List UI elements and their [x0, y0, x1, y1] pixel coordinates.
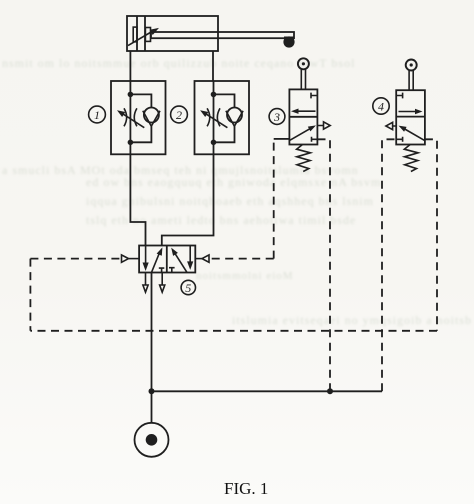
bleed-through text from reverse page [2, 56, 472, 327]
valve 4 bottom diagonal [403, 128, 424, 140]
valve 2 check branch bottom [214, 126, 235, 142]
valve 2 throttle arcs [207, 108, 220, 126]
valve 5 right exhaust [161, 273, 163, 286]
supply dashed to valve 4 [382, 139, 396, 391]
pressure source [135, 423, 169, 457]
port line cylinder-left to valve 1 [129, 51, 131, 81]
valve 4 body [396, 90, 425, 144]
valve 4 spring [404, 145, 418, 172]
rod end ball [283, 36, 294, 47]
valve 3 roller [298, 58, 309, 69]
valve 5 left pilot arrow [129, 258, 140, 260]
valve 3 body [289, 89, 317, 144]
valve 2 check seat [226, 111, 243, 126]
cylinder piston (two lines) [137, 16, 145, 51]
svg-text:2: 2 [176, 108, 182, 122]
valve 1 check circle [144, 108, 159, 123]
svg-text:itslumia evitseqaei no ymqsigo: itslumia evitseqaei no ymqsigoib a noits… [232, 313, 472, 327]
valve 1 through line [129, 81, 131, 154]
flow control valve 2 box [195, 81, 250, 154]
svg-text:4: 4 [378, 100, 384, 114]
valve 3 bottom blocked port [312, 137, 318, 142]
valve 1 top junction [128, 92, 134, 98]
line valve1 to valve5 left top port [130, 154, 145, 245]
valve 5 divider [166, 246, 168, 273]
valve 4 bottom blocked port [396, 137, 402, 142]
valve 1 check branch bottom [130, 126, 151, 142]
valve 1 check seat [143, 111, 160, 126]
pilot dashed: left riser to valve5 left pilot [30, 258, 121, 260]
valve 5 right box blocked port T [169, 268, 175, 273]
label 4 [373, 98, 389, 114]
valve 2 throttle arrow [206, 114, 228, 128]
valve 1 bottom junction [128, 140, 134, 146]
cylinder cushion block left [133, 27, 137, 42]
valve 5 left box blocked port T [159, 268, 165, 272]
valve 1 throttle arcs [124, 108, 137, 126]
svg-text:1: 1 [94, 108, 100, 122]
valve 4 divider [396, 116, 425, 118]
cushion adjust arrow [128, 32, 152, 46]
line valve2 to valve5 right top port [162, 154, 214, 245]
cylinder body [127, 16, 218, 51]
svg-text:3: 3 [273, 110, 280, 124]
piston rod [151, 32, 294, 38]
valve 1 check branch [130, 94, 151, 107]
valve 5 right pilot arrow [195, 258, 202, 260]
valve 3 bottom diagonal [290, 128, 312, 141]
valve 2 through line [213, 81, 215, 154]
valve 4 exhaust triangle left [386, 122, 396, 129]
valve 3 divider [289, 116, 317, 118]
supply dashed to valve 3 [317, 139, 330, 391]
valve 3 exhaust triangle right [317, 122, 330, 129]
pilot dashed: valve3 to valve5 right pilot [209, 258, 274, 260]
pilot dashed: bottom long horizontal [30, 330, 437, 332]
cylinder rod bushing [145, 28, 150, 42]
supply junction dot [149, 388, 155, 394]
valve 5 left box down path [145, 246, 147, 264]
port line cylinder-right to valve 2 [212, 51, 214, 81]
valve 2 check branch [214, 94, 235, 107]
valve 5 right box diagonal up path [175, 253, 187, 272]
valve 5 right box down path [189, 246, 191, 262]
svg-text:tslq eth no ameti ledto bns ae: tslq eth no ameti ledto bns aehotiwa tim… [86, 213, 356, 227]
valve 1 throttle arrow [123, 114, 145, 128]
valve 3 roller stem [301, 69, 305, 89]
label 5 [181, 280, 195, 294]
valve 2 check circle [227, 108, 242, 123]
label 1 [89, 106, 106, 123]
svg-text:5: 5 [185, 281, 191, 295]
label 2 [171, 106, 188, 123]
valve 4 roller [406, 60, 417, 71]
supply line vertical [151, 273, 153, 423]
valve 5 left box diagonal up path [152, 254, 160, 273]
valve 5 body [139, 246, 195, 273]
valve 3 left port stub [274, 138, 290, 140]
label 3 [269, 109, 285, 125]
supply tap dot for valve 3 [327, 388, 333, 394]
svg-text:FIG. 1: FIG. 1 [224, 479, 268, 498]
pilot dashed: valve4 right port out [425, 139, 437, 330]
valve 3 spring [297, 145, 311, 172]
supply line horizontal [152, 390, 383, 392]
flow control valve 1 box [111, 81, 166, 154]
valve 4 top arrow right [399, 111, 418, 113]
valve 3 top blocked port [311, 93, 317, 99]
valve 2 bottom junction [211, 140, 217, 146]
valve 3 top arrow left [296, 110, 316, 112]
valve 5 left exhaust [145, 273, 147, 286]
valve 2 top junction [211, 92, 217, 98]
svg-text:noitsmmolni eioM: noitsmmolni eioM [196, 270, 294, 282]
valve 4 top blocked port [396, 93, 402, 99]
valve 4 roller stem [409, 70, 413, 90]
